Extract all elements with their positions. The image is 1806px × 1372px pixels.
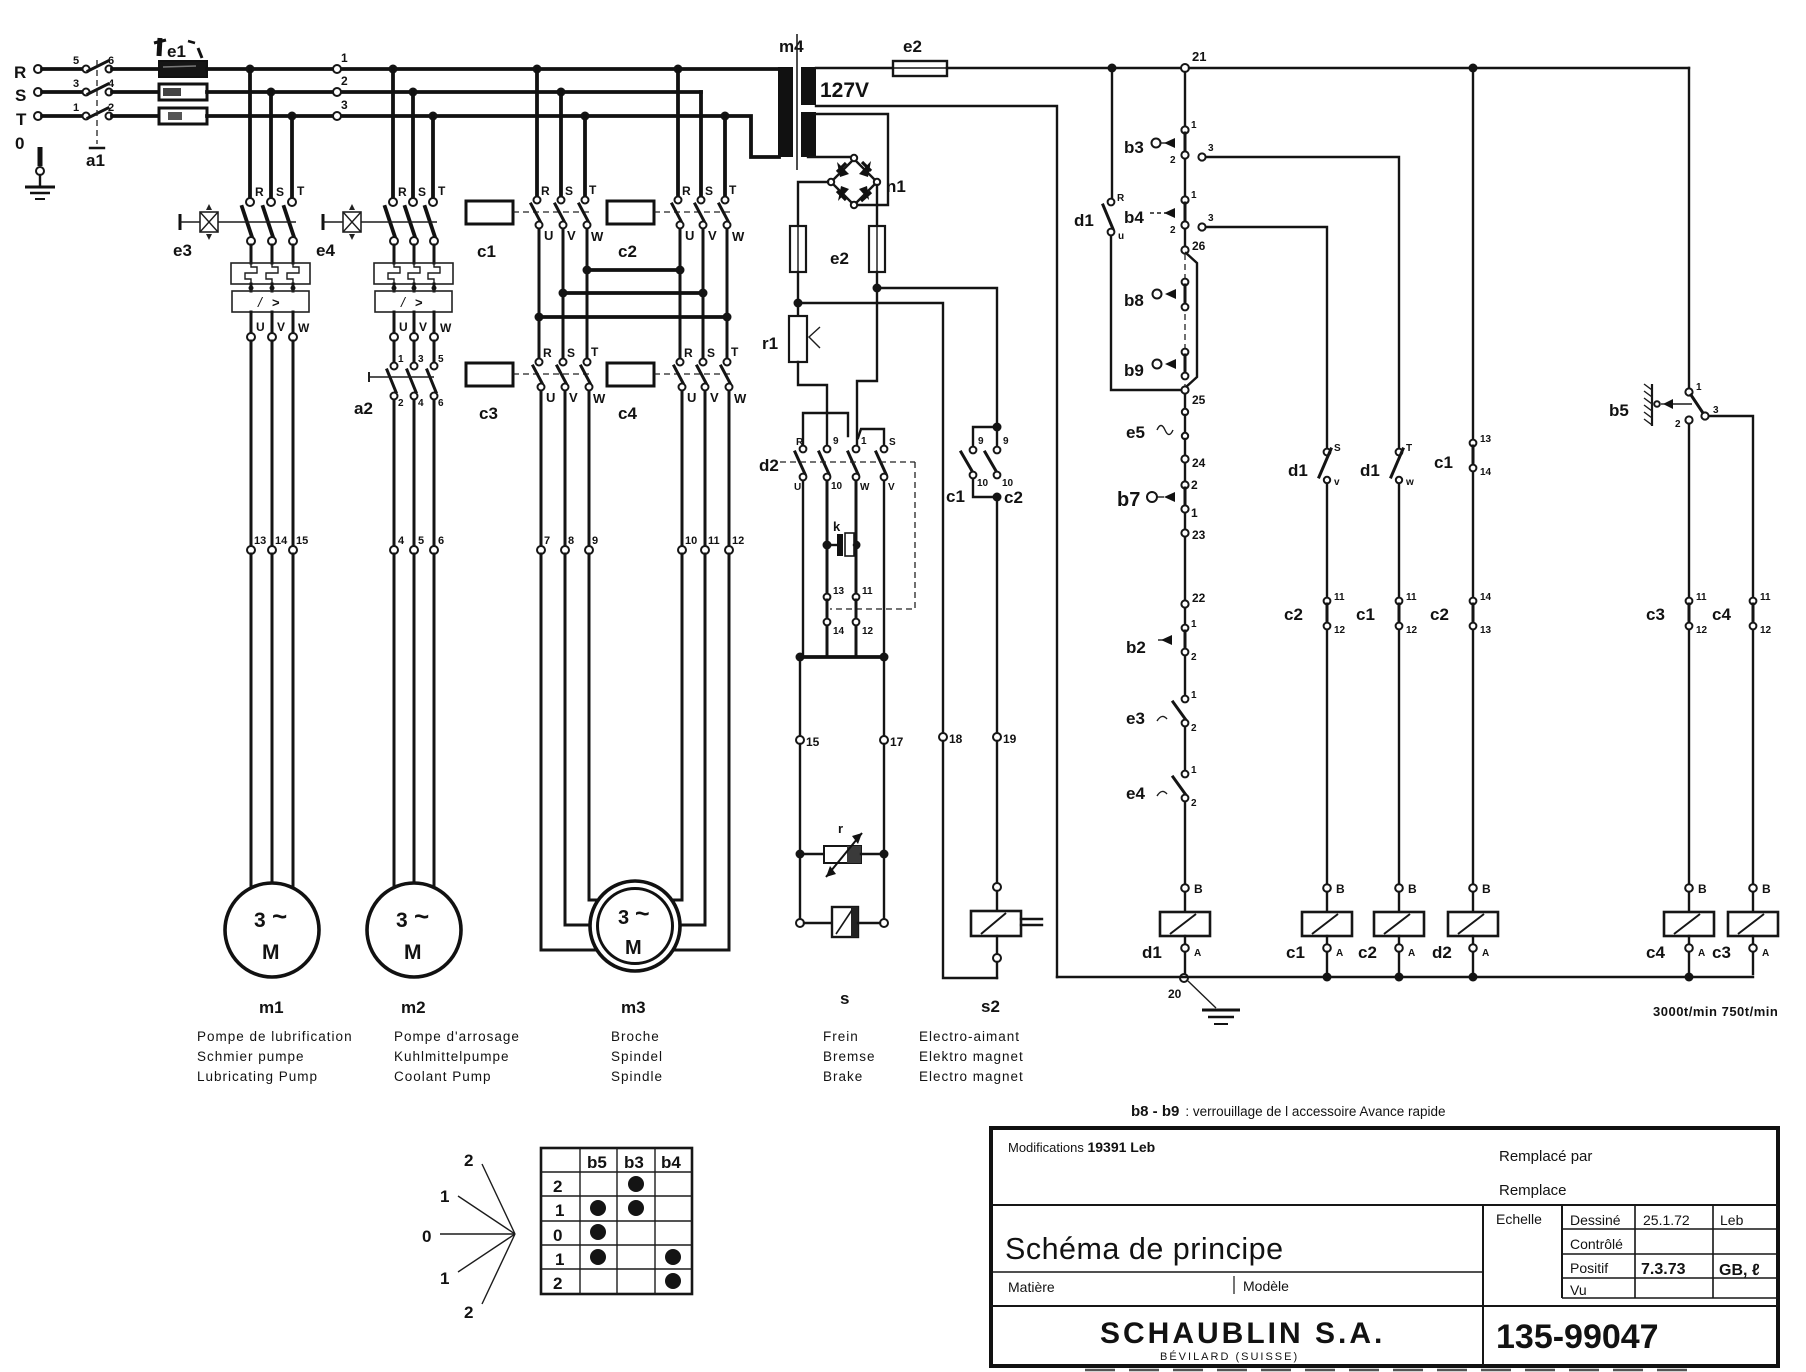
wire m2 feeder V — [413, 400, 416, 546]
svg-text:V: V — [710, 390, 719, 405]
svg-text:1: 1 — [1191, 190, 1197, 201]
svg-text:A: A — [1762, 948, 1769, 959]
wire c1 13-14 down — [1472, 472, 1474, 597]
node T — [16, 110, 27, 129]
thermal contact e5 — [1126, 394, 1188, 442]
wire e3 drop S — [269, 92, 273, 197]
svg-text:U: U — [794, 482, 801, 493]
contactor c3 poles — [533, 345, 606, 406]
svg-text:R: R — [1117, 193, 1125, 204]
svg-text:M: M — [625, 937, 642, 959]
wire R after a1 — [112, 67, 159, 71]
svg-text:e3: e3 — [173, 241, 192, 260]
motor m1 — [225, 883, 319, 977]
svg-text:3: 3 — [418, 354, 424, 365]
overload contact e4 — [1126, 727, 1197, 809]
contactor c4 designator — [618, 404, 637, 423]
svg-text:B: B — [1408, 882, 1417, 896]
svg-text:9: 9 — [978, 436, 984, 447]
svg-text:3: 3 — [1713, 405, 1719, 416]
svg-text:R: R — [682, 184, 691, 198]
resistor r1 — [762, 303, 820, 362]
svg-text:d2: d2 — [1432, 943, 1452, 962]
svg-text:M: M — [404, 941, 422, 964]
pull switch b7 — [1117, 463, 1198, 520]
svg-text:3: 3 — [254, 909, 266, 932]
wire secondary lower to rectifier top — [808, 156, 853, 157]
motor m1 caption — [197, 1029, 353, 1084]
svg-text:1: 1 — [1191, 765, 1197, 776]
wire right fuse to d2 terminal 1 — [857, 288, 877, 445]
switch a2 bottom terminals 2 4 6 — [391, 393, 445, 410]
aux contact d1 S-v — [1288, 443, 1341, 488]
wire b5-3 to c4 rung — [1709, 416, 1753, 597]
svg-text:d1: d1 — [1360, 461, 1380, 480]
svg-text:T: T — [1406, 443, 1412, 454]
svg-text:7: 7 — [544, 535, 550, 547]
terminal B c3 — [1749, 882, 1771, 896]
wire rectifier DC left — [798, 182, 828, 226]
svg-text:V: V — [569, 390, 578, 405]
wire m3 right feeders — [671, 554, 729, 950]
svg-text:T: T — [438, 184, 446, 198]
contactor c3 linkage — [513, 373, 590, 375]
svg-text:11: 11 — [1760, 592, 1771, 603]
brake rail — [796, 653, 889, 662]
svg-text:14: 14 — [833, 626, 845, 637]
svg-text:S: S — [15, 86, 26, 105]
contactor c2 coil box — [607, 201, 654, 224]
svg-text:V: V — [419, 320, 427, 334]
breaker e3 handle — [180, 204, 296, 240]
transformer m4 primary winding — [778, 67, 793, 157]
contact bars 13-14 / 11-12 — [827, 600, 856, 619]
svg-text:1: 1 — [1191, 120, 1197, 131]
terminal B c2 — [1395, 882, 1417, 896]
terminal 14 — [268, 535, 288, 554]
svg-text:s: s — [840, 989, 849, 1008]
wire e4 to a2 — [394, 341, 434, 361]
contactor c2 poles — [672, 183, 745, 244]
breaker e3 top terminals — [246, 198, 296, 206]
wire m2 down W — [433, 554, 436, 889]
terminal A d2 — [1469, 944, 1490, 981]
svg-text:R: R — [541, 184, 550, 198]
svg-text:Vu: Vu — [1570, 1282, 1587, 1298]
svg-text:1: 1 — [555, 1201, 564, 1220]
svg-text:10: 10 — [831, 481, 843, 492]
svg-text:Pompe d'arrosage: Pompe d'arrosage — [394, 1029, 520, 1044]
svg-text:c1: c1 — [1434, 453, 1453, 472]
svg-text:Remplacé par: Remplacé par — [1499, 1148, 1592, 1165]
contactor c1 linkage — [513, 211, 590, 213]
svg-text:A: A — [1194, 948, 1201, 959]
title block frame — [991, 1128, 1778, 1366]
svg-text:4: 4 — [418, 398, 424, 409]
junction s2 aux feed — [873, 284, 882, 293]
svg-text:9: 9 — [1003, 436, 1009, 447]
svg-text:a1: a1 — [86, 151, 105, 170]
svg-text:17: 17 — [890, 735, 904, 749]
svg-text:V: V — [277, 320, 285, 334]
node 0 — [15, 134, 24, 153]
svg-text:b5: b5 — [1609, 401, 1629, 420]
contactor c4 linkage — [654, 373, 730, 375]
svg-text:2: 2 — [1675, 419, 1681, 430]
svg-text:Pompe de lubrification: Pompe de lubrification — [197, 1029, 353, 1044]
svg-text:12: 12 — [732, 535, 744, 547]
svg-text:c3: c3 — [1646, 605, 1665, 624]
svg-text:1: 1 — [1191, 506, 1198, 520]
svg-text:2: 2 — [1170, 225, 1176, 236]
svg-text:135-99047: 135-99047 — [1496, 1318, 1659, 1356]
junction d1 branch — [1108, 64, 1117, 73]
svg-text:m2: m2 — [401, 998, 426, 1017]
terminal 15 — [289, 535, 308, 554]
svg-text:S: S — [565, 184, 573, 198]
svg-text:12: 12 — [1760, 625, 1772, 636]
terminal 22 — [1181, 591, 1205, 608]
fuse e2 left DC — [790, 226, 806, 272]
overload e3 trip box I> — [232, 291, 309, 312]
wire m1 feeder W — [292, 341, 295, 546]
svg-text:Matière: Matière — [1008, 1279, 1055, 1295]
label 127V — [820, 79, 869, 102]
wire bus S — [207, 90, 701, 94]
junction s2 aux bottom — [993, 493, 1002, 502]
motor m3 caption — [611, 1029, 663, 1084]
svg-text:3000t/min 750t/min: 3000t/min 750t/min — [1653, 1004, 1778, 1019]
junction e3 drop T — [288, 112, 297, 121]
wire b4 to 26 — [1184, 229, 1186, 246]
svg-text:r1: r1 — [762, 334, 778, 353]
node 26 — [1181, 239, 1205, 254]
svg-text:R: R — [543, 346, 552, 360]
svg-text:Spindel: Spindel — [611, 1049, 663, 1064]
wire d1 interlock drop — [1111, 68, 1113, 198]
svg-text:1: 1 — [555, 1250, 564, 1269]
terminal 9 — [585, 535, 598, 554]
wire c2 drops — [678, 69, 725, 196]
svg-text:11: 11 — [1696, 592, 1707, 603]
svg-text:T: T — [589, 183, 597, 197]
fuse e1 phase T — [159, 108, 207, 124]
svg-text:c2: c2 — [1358, 943, 1377, 962]
svg-text:W: W — [734, 391, 747, 406]
svg-text:s2: s2 — [981, 997, 1000, 1016]
overload e4 links — [392, 284, 437, 291]
svg-text:c4: c4 — [1646, 943, 1665, 962]
transformer m4 secondary winding upper — [801, 67, 816, 105]
svg-text:c3: c3 — [479, 404, 498, 423]
wire d2 U column — [802, 481, 804, 657]
svg-text:Schéma de principe: Schéma de principe — [1005, 1232, 1284, 1266]
svg-text:R: R — [255, 185, 264, 199]
wire 21 rail right — [1189, 67, 1689, 69]
svg-text:S: S — [567, 346, 575, 360]
svg-text:W: W — [593, 391, 606, 406]
svg-text:B: B — [1698, 882, 1707, 896]
terminal 18 — [939, 732, 963, 746]
node 25 — [1181, 386, 1205, 407]
svg-text:~: ~ — [635, 900, 650, 928]
svg-text:n1: n1 — [886, 177, 906, 196]
motor m2 designator — [401, 998, 426, 1017]
wire to coil d2 — [1472, 630, 1474, 884]
svg-text:T: T — [16, 110, 27, 129]
svg-text:20: 20 — [1168, 987, 1182, 1001]
wire c1 rung down — [1472, 72, 1474, 439]
switch a2 designator — [354, 399, 373, 418]
svg-text:T: T — [731, 345, 739, 359]
svg-text:SCHAUBLIN S.A.: SCHAUBLIN S.A. — [1100, 1317, 1385, 1350]
svg-text:A: A — [1698, 948, 1705, 959]
pushbutton b3 — [1124, 133, 1185, 157]
wire 15 down — [799, 744, 801, 919]
svg-text:c4: c4 — [1712, 605, 1731, 624]
svg-text:12: 12 — [1406, 625, 1418, 636]
svg-text:S: S — [889, 437, 896, 448]
electromagnet designator s2 — [981, 997, 1000, 1016]
svg-text:c2: c2 — [1004, 488, 1023, 507]
svg-text:Modèle: Modèle — [1243, 1278, 1289, 1294]
svg-text:Electro-aimant: Electro-aimant — [919, 1029, 1020, 1044]
overload contact e3 — [1126, 656, 1197, 734]
wire S input — [42, 90, 82, 94]
svg-text:R: R — [14, 63, 26, 82]
svg-text:25: 25 — [1192, 393, 1206, 407]
scan smudge line — [1085, 1369, 1700, 1372]
contactor c1 designator — [477, 242, 496, 261]
svg-text:c2: c2 — [1430, 605, 1449, 624]
terminal A c4 — [1685, 944, 1706, 981]
terminal R input — [34, 65, 42, 73]
svg-text:18: 18 — [949, 732, 963, 746]
svg-text:11: 11 — [1406, 592, 1417, 603]
svg-text:15: 15 — [296, 535, 308, 547]
breaker e4 designator — [316, 241, 335, 260]
key switch b9 — [1124, 349, 1188, 380]
svg-text:5: 5 — [73, 55, 79, 67]
electromagnet caption — [919, 1029, 1024, 1084]
junction e4 drop R — [389, 65, 398, 74]
wire to coil c2 — [1398, 630, 1400, 884]
wire d2 S hook — [858, 429, 884, 445]
overload e3 output UVW labels — [251, 312, 310, 335]
terminal A c3 — [1749, 944, 1769, 974]
motor m2 caption — [394, 1029, 520, 1084]
svg-text:GB, ℓ: GB, ℓ — [1719, 1262, 1760, 1279]
svg-text:3: 3 — [1208, 213, 1214, 224]
ground branch 0 — [36, 147, 44, 185]
wires 14/12 to brake rail — [827, 626, 856, 657]
svg-text:~: ~ — [272, 901, 287, 931]
wire 19 down — [996, 741, 998, 883]
svg-text:r: r — [838, 821, 843, 836]
fuse e2 control — [893, 37, 947, 76]
contactor d2 linkage — [780, 461, 915, 463]
motor m3 — [590, 881, 680, 971]
svg-text:2: 2 — [1191, 798, 1197, 809]
wire m1 feeder V — [271, 341, 274, 546]
aux contact c3 11-12 — [1646, 592, 1708, 636]
terminal 2 on bus S — [333, 74, 348, 96]
svg-text:W: W — [440, 321, 452, 335]
motor m2 — [367, 883, 461, 977]
svg-text:1: 1 — [398, 354, 404, 365]
svg-text:3: 3 — [341, 98, 348, 112]
svg-text:7.3.73: 7.3.73 — [1641, 1261, 1686, 1278]
svg-text:6: 6 — [438, 398, 444, 409]
limit contact b2 — [1126, 608, 1197, 663]
svg-text:6: 6 — [438, 535, 444, 547]
wire e4 drop T — [431, 116, 435, 197]
svg-text:c1: c1 — [946, 487, 965, 506]
svg-text:2: 2 — [398, 398, 404, 409]
svg-text:v: v — [1334, 477, 1340, 488]
brake caption — [823, 1029, 876, 1084]
switch a1 pole T (contacts 1-2) — [73, 102, 114, 120]
junction e4 drop T — [429, 112, 438, 121]
linkage box to k (dashed) — [830, 462, 915, 609]
wire d2 W column upper — [855, 481, 858, 545]
svg-text:10: 10 — [685, 535, 697, 547]
terminal s2 top — [993, 883, 1001, 891]
svg-text:Dessiné: Dessiné — [1570, 1212, 1621, 1228]
coil c3 — [1712, 892, 1778, 962]
svg-text:4: 4 — [398, 535, 405, 547]
coil c4 — [1646, 892, 1714, 962]
svg-text:M: M — [262, 941, 280, 964]
svg-text:U: U — [544, 228, 553, 243]
breaker e3 phase labels R S T — [255, 184, 305, 199]
terminal 6 — [430, 535, 444, 554]
wire b5-2 to c3 rung — [1688, 424, 1690, 597]
coil d2 — [1432, 892, 1498, 962]
svg-text:e2: e2 — [903, 37, 922, 56]
terminal 19 — [993, 732, 1017, 746]
svg-text:b3: b3 — [624, 1153, 644, 1172]
svg-text:~: ~ — [414, 901, 429, 931]
coil c1 — [1286, 892, 1352, 962]
svg-text:1: 1 — [1191, 690, 1197, 701]
wire secondary top to fuse e2 — [816, 67, 893, 69]
svg-text:Brake: Brake — [823, 1069, 863, 1084]
svg-text:15: 15 — [806, 735, 820, 749]
switch a1 designator — [86, 151, 105, 170]
variable resistor r — [804, 821, 880, 877]
wire d1Sv down — [1326, 484, 1328, 597]
svg-text:2: 2 — [464, 1151, 473, 1170]
svg-text:W: W — [732, 229, 745, 244]
junction c1 drop T — [581, 112, 590, 121]
terminal 11 — [701, 535, 720, 554]
contactor c3 coil box — [466, 363, 513, 386]
svg-text:13: 13 — [1480, 625, 1492, 636]
wire c3 outputs down — [541, 391, 589, 546]
wire e3 to overload — [251, 245, 293, 263]
electromagnet coil s2 — [971, 891, 1042, 954]
svg-text:V: V — [708, 228, 717, 243]
selector switch b5 — [1609, 382, 1719, 430]
breaker e4 phase labels R S T — [398, 184, 446, 199]
junction r left — [796, 850, 805, 859]
transformer m4 designator — [779, 37, 804, 56]
node S — [15, 86, 26, 105]
transformer m4 secondary winding lower — [801, 112, 816, 157]
wire e4 drop S — [411, 92, 415, 197]
svg-text:Frein: Frein — [823, 1029, 859, 1044]
terminal 1 b3 — [1181, 120, 1197, 134]
contactor c1 poles — [531, 183, 604, 244]
svg-text:>: > — [415, 295, 423, 310]
fuse e1 phase S — [159, 84, 207, 100]
svg-text:R: R — [684, 346, 693, 360]
wire e4 drop R — [391, 69, 395, 197]
svg-text:d2: d2 — [759, 456, 779, 475]
svg-text:11: 11 — [862, 586, 873, 597]
svg-text:u: u — [1118, 231, 1124, 242]
breaker e3 designator — [173, 241, 192, 260]
wire m1 down W — [292, 554, 295, 889]
terminal B c1 — [1323, 882, 1345, 896]
terminal 3 on bus T — [333, 98, 348, 120]
svg-text:d1: d1 — [1288, 461, 1308, 480]
wire left fuse to junction — [797, 272, 799, 303]
svg-text:2: 2 — [1191, 478, 1198, 492]
terminal 12 d2 — [853, 619, 874, 637]
svg-text:3: 3 — [1208, 143, 1214, 154]
svg-text:Contrôlé: Contrôlé — [1570, 1236, 1623, 1252]
wire d1Tw down — [1398, 484, 1400, 597]
bottom control rail — [1057, 976, 1753, 978]
svg-text:a2: a2 — [354, 399, 373, 418]
bypass 26-25 — [1186, 253, 1197, 387]
aux contact c1 11-12 — [1356, 592, 1418, 636]
title block texts — [1005, 1139, 1760, 1363]
wire rail to 17 — [883, 657, 885, 736]
svg-text:1: 1 — [341, 51, 348, 65]
svg-text:b2: b2 — [1126, 638, 1146, 657]
wire c1 drops — [537, 69, 585, 196]
terminal 2 b4 — [1170, 221, 1189, 236]
svg-text:b5: b5 — [587, 1153, 607, 1172]
wire c2 outputs down — [680, 229, 727, 357]
contactor d2 poles R 9 1 S — [794, 436, 896, 493]
wire e4 to overload — [394, 245, 434, 263]
svg-text:k: k — [833, 519, 841, 534]
svg-text:9: 9 — [592, 535, 598, 547]
switch a1 pole S (contacts 3-4) — [73, 78, 115, 96]
svg-text:e5: e5 — [1126, 423, 1145, 442]
contactor c1 coil box — [466, 201, 513, 224]
wire b4-3 to d1 S rung — [1206, 227, 1327, 448]
fuse e2 DC designator — [830, 249, 849, 268]
overload e4 output UVW labels — [394, 312, 452, 335]
svg-text:Broche: Broche — [611, 1029, 660, 1044]
svg-text:3: 3 — [618, 907, 629, 929]
svg-text:Positif: Positif — [1570, 1260, 1608, 1276]
svg-text:23: 23 — [1192, 528, 1206, 542]
overload e4 output terminals — [390, 333, 438, 341]
svg-text:Elektro magnet: Elektro magnet — [919, 1049, 1024, 1064]
svg-text:>: > — [272, 295, 280, 310]
junction s2 aux top — [993, 423, 1002, 432]
terminal 23 — [1181, 513, 1205, 542]
svg-text:b9: b9 — [1124, 361, 1144, 380]
svg-text:w: w — [1405, 477, 1414, 488]
svg-text:1: 1 — [73, 102, 79, 114]
